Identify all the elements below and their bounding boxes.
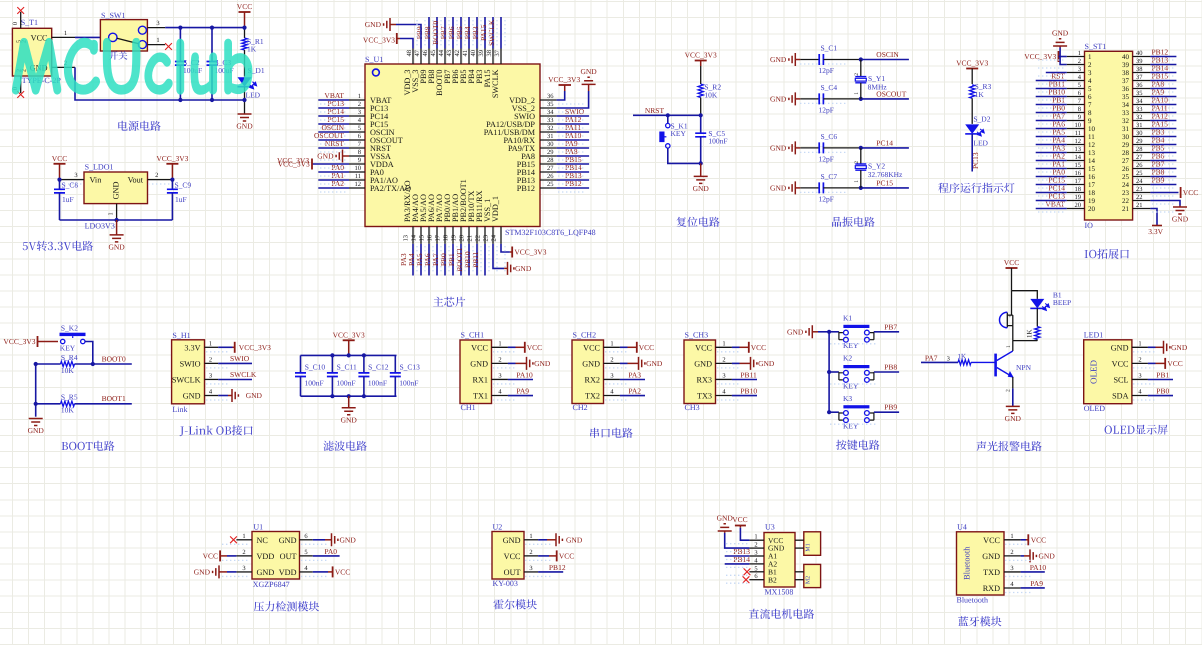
svg-text:VCC: VCC	[52, 154, 67, 163]
wire net PB8	[874, 363, 899, 373]
svg-text:100nF: 100nF	[399, 379, 418, 388]
ground GND for S_C6	[770, 141, 800, 154]
ground GND filter	[341, 396, 358, 424]
wire net PA2 at S_CH2 pin4	[620, 387, 645, 396]
svg-text:26: 26	[1122, 165, 1130, 173]
svg-text:29: 29	[1136, 138, 1143, 145]
svg-text:21: 21	[467, 235, 474, 242]
capacitor S_C8 1uF	[54, 180, 78, 220]
svg-text:NRST: NRST	[325, 139, 345, 148]
svg-text:1: 1	[1078, 50, 1081, 57]
U1 pin 14 PA4/AO	[407, 194, 421, 275]
svg-text:20: 20	[459, 235, 466, 242]
svg-text:CH2: CH2	[573, 403, 588, 412]
svg-text:M2: M2	[806, 576, 812, 584]
svg-text:24: 24	[1136, 178, 1143, 185]
svg-text:1: 1	[529, 533, 532, 540]
svg-text:23: 23	[483, 235, 490, 242]
svg-text:CH3: CH3	[685, 403, 700, 412]
regulator S_LDO1 LDO3V3	[60, 163, 173, 231]
svg-text:S_C8: S_C8	[62, 181, 79, 190]
svg-text:29: 29	[1122, 141, 1130, 149]
connector S_ST1 IO body	[1085, 42, 1133, 230]
wire net OSCOUT	[861, 89, 909, 99]
svg-text:1: 1	[1010, 533, 1013, 540]
svg-text:VCC: VCC	[1183, 188, 1198, 197]
title OLED显示屏	[1105, 425, 1168, 435]
svg-text:32: 32	[547, 125, 554, 132]
U1 pin 33 PA12/USB/DP	[486, 115, 589, 129]
junction BOOT0 K2	[34, 362, 95, 366]
ground GND LDO	[108, 220, 125, 251]
wire net PB14 at U3 pin4	[725, 555, 751, 564]
svg-text:29: 29	[547, 149, 554, 156]
svg-text:12: 12	[1088, 141, 1096, 149]
svg-text:PA3: PA3	[628, 370, 641, 379]
ST1 pin 22 right	[1122, 194, 1150, 205]
svg-text:2: 2	[155, 172, 158, 179]
ST1 pin 25 right	[1122, 168, 1176, 181]
svg-text:S_C1: S_C1	[821, 44, 838, 53]
svg-text:STM32F103C8T6_LQFP48: STM32F103C8T6_LQFP48	[505, 228, 596, 237]
svg-text:S_C7: S_C7	[821, 172, 838, 181]
svg-text:5: 5	[304, 549, 307, 556]
junction bus K2	[827, 370, 831, 374]
power port VCC_3V3 indicator	[956, 59, 988, 85]
svg-text:VCC: VCC	[335, 568, 350, 577]
svg-text:5: 5	[1088, 85, 1092, 93]
title 蓝牙模块	[958, 616, 1001, 626]
svg-text:S_T1: S_T1	[21, 18, 38, 27]
svg-text:PB12: PB12	[565, 179, 582, 188]
svg-text:14: 14	[411, 234, 418, 241]
svg-text:35: 35	[1136, 90, 1143, 97]
ST1 pin 39 right	[1122, 56, 1176, 69]
svg-text:37: 37	[1136, 74, 1143, 81]
svg-text:LED: LED	[246, 91, 261, 100]
U1 pin 39 PB3	[471, 17, 485, 84]
switch S_SW1	[100, 11, 165, 51]
capacitor S_C12 100nF	[358, 355, 388, 396]
svg-text:21: 21	[1122, 205, 1130, 213]
svg-text:15: 15	[419, 235, 426, 242]
svg-text:3.3V: 3.3V	[1148, 227, 1163, 236]
title 程序运行指示灯	[938, 183, 1014, 193]
svg-text:S_ST1: S_ST1	[1085, 42, 1107, 51]
U1 pin 26 PB13	[517, 171, 589, 185]
svg-text:35: 35	[547, 101, 554, 108]
power VCC_3V3 at U1 VDDA pin9	[278, 159, 349, 170]
svg-text:GND: GND	[770, 55, 787, 64]
svg-text:34: 34	[1136, 98, 1143, 105]
svg-text:GND: GND	[787, 327, 804, 336]
svg-text:17: 17	[1075, 178, 1082, 185]
svg-text:U2: U2	[493, 522, 503, 531]
svg-text:GND: GND	[770, 144, 787, 153]
title 电源电路	[118, 121, 160, 131]
capacitor S_C5 100nF	[695, 115, 727, 163]
wire net PA0 at U1 pin5	[313, 547, 340, 556]
wire net PB9	[874, 403, 899, 413]
svg-text:OLED: OLED	[1084, 404, 1106, 413]
svg-text:2: 2	[610, 356, 613, 363]
junction C8 top	[57, 178, 61, 182]
svg-text:100nF: 100nF	[708, 137, 727, 146]
module U2 KY-003 body	[492, 522, 538, 588]
svg-text:S_D2: S_D2	[973, 114, 990, 123]
wire BOOT left bus	[35, 364, 37, 417]
svg-text:VDD: VDD	[279, 568, 297, 577]
svg-text:GND: GND	[770, 95, 787, 104]
svg-text:8: 8	[1088, 109, 1092, 117]
svg-text:3: 3	[498, 372, 501, 379]
svg-text:CH1: CH1	[461, 403, 476, 412]
ground GND at S_CH2 pin2	[620, 357, 663, 370]
svg-text:20: 20	[1088, 205, 1096, 213]
svg-text:23: 23	[1136, 186, 1143, 193]
ground GND at U1 pin6	[313, 533, 357, 546]
svg-text:3: 3	[1138, 372, 1141, 379]
svg-text:PA7: PA7	[925, 353, 938, 362]
svg-text:10: 10	[1075, 122, 1082, 129]
svg-text:S_U1: S_U1	[365, 55, 383, 64]
svg-text:9: 9	[1088, 117, 1092, 125]
wire net PB11 at S_CH3 pin3	[732, 370, 757, 379]
junction at PC15	[859, 186, 863, 190]
svg-text:1: 1	[1006, 345, 1012, 348]
svg-text:36: 36	[1136, 82, 1143, 89]
svg-text:1uF: 1uF	[175, 195, 187, 204]
svg-text:NRST: NRST	[645, 106, 665, 115]
wire net PB7	[874, 322, 899, 332]
ground GND at U1 pin3	[194, 565, 237, 578]
wire net PB13 at U3 pin3	[725, 547, 751, 556]
svg-text:VCC: VCC	[983, 536, 1000, 545]
U1 pin 35 VSS_2	[512, 101, 557, 113]
resistor S_R5 10K / net BOOT1	[36, 393, 132, 415]
svg-text:GND: GND	[717, 514, 734, 523]
ST1 pin 21 right	[1122, 202, 1150, 213]
junction reset node	[666, 113, 703, 117]
svg-text:19: 19	[1075, 194, 1082, 201]
svg-text:GND: GND	[693, 184, 710, 193]
connector S_CH3 CH3 body	[684, 331, 732, 413]
svg-text:2: 2	[358, 101, 361, 108]
pushbutton S_K1 KEY	[659, 115, 700, 163]
U1 pin 27 PB14	[517, 163, 589, 177]
U1 pin 13 PA3/RX/AO	[399, 180, 413, 275]
svg-text:35: 35	[1122, 93, 1130, 101]
svg-text:27: 27	[1122, 157, 1130, 165]
svg-text:SWIO: SWIO	[230, 354, 250, 363]
svg-text:B2: B2	[768, 575, 777, 584]
svg-text:TX3: TX3	[697, 392, 712, 401]
svg-text:BOOT1: BOOT1	[102, 394, 126, 403]
svg-text:9: 9	[1078, 114, 1081, 121]
wire net SWIO at H1	[218, 354, 252, 363]
svg-text:VCC_3V3: VCC_3V3	[156, 154, 188, 163]
svg-text:3: 3	[754, 550, 757, 557]
svg-text:VCC: VCC	[695, 343, 712, 352]
svg-text:12: 12	[355, 181, 362, 188]
svg-text:S_C10: S_C10	[305, 362, 326, 371]
no-connect U3 pin6	[743, 576, 750, 583]
svg-text:10K: 10K	[704, 90, 718, 99]
svg-text:KY-003: KY-003	[493, 579, 518, 588]
svg-text:12pF: 12pF	[819, 105, 834, 114]
svg-text:VCC_3V3: VCC_3V3	[685, 51, 717, 60]
svg-text:21: 21	[1136, 202, 1143, 209]
svg-text:39: 39	[478, 50, 485, 57]
svg-text:33: 33	[1122, 109, 1130, 117]
svg-text:PB12: PB12	[549, 563, 566, 572]
capacitor S_C10 100nF	[295, 355, 325, 396]
svg-text:VDD_1: VDD_1	[491, 196, 500, 222]
wire net OSCIN	[861, 50, 909, 60]
ST1 pin 33 right	[1122, 104, 1176, 117]
svg-text:4: 4	[1088, 77, 1092, 85]
driver U3 MX1508 body	[749, 522, 795, 596]
svg-text:39: 39	[1122, 61, 1130, 69]
svg-text:VCC_3V3: VCC_3V3	[239, 343, 271, 352]
svg-text:VCC: VCC	[732, 515, 747, 524]
wire NRST	[633, 106, 701, 115]
ST1 pin 29 right	[1122, 136, 1176, 149]
svg-text:VCC: VCC	[1167, 359, 1182, 368]
ST1 pin 20 left	[1036, 200, 1096, 213]
svg-text:SWIO: SWIO	[180, 359, 201, 368]
svg-text:PA10: PA10	[516, 370, 533, 379]
svg-text:S_K2: S_K2	[61, 324, 78, 333]
svg-text:3: 3	[358, 109, 361, 116]
junction C3 top	[210, 26, 214, 103]
svg-text:3: 3	[1088, 69, 1092, 77]
svg-text:SWCLK: SWCLK	[172, 375, 201, 384]
title J-Link OB接口	[180, 425, 253, 436]
wire net PB1 at LED1 pin3	[1148, 370, 1173, 379]
wire filter bottom rail	[301, 395, 397, 397]
svg-text:GND: GND	[646, 359, 663, 368]
junction C2 top	[178, 26, 182, 103]
title 滤波电路	[324, 441, 367, 451]
resistor R 1K base / net PA7	[921, 352, 996, 365]
power VCC at LED1 pin2	[1148, 358, 1183, 369]
svg-text:1K: 1K	[1026, 329, 1034, 338]
ST1 pin 2 left	[1067, 58, 1092, 69]
ST1 pin 10 left	[1036, 120, 1096, 133]
svg-text:SWCLK: SWCLK	[487, 19, 496, 46]
svg-text:LDO3V3: LDO3V3	[85, 222, 115, 231]
U1 pin 38 PA15	[479, 17, 493, 87]
resistor S_R4 10K / net BOOT0	[36, 353, 132, 375]
pushbutton K2 KEY	[829, 354, 874, 391]
svg-text:PB1: PB1	[1156, 370, 1169, 379]
svg-text:VCC: VCC	[1004, 258, 1019, 267]
LED S_D2	[965, 114, 991, 147]
U1 pin 1 VBAT	[318, 91, 391, 105]
svg-text:U3: U3	[765, 522, 775, 531]
ST1 pin 14 left	[1036, 152, 1096, 165]
svg-text:2: 2	[854, 73, 860, 76]
U1 pin 43 PB7	[439, 17, 453, 84]
wire net PC15	[861, 178, 909, 188]
svg-text:GND: GND	[534, 359, 551, 368]
svg-text:1: 1	[722, 340, 725, 347]
svg-text:GND: GND	[28, 426, 45, 435]
svg-text:SCL: SCL	[1113, 375, 1128, 384]
svg-text:23: 23	[1122, 189, 1130, 197]
ST1 pin 13 left	[1036, 144, 1096, 157]
svg-text:PB9: PB9	[1152, 176, 1165, 185]
ground GND at U1 VSS_3 pin47	[365, 18, 421, 49]
svg-text:LED: LED	[973, 139, 988, 148]
wire net PA10 at S_CH1 pin3	[508, 370, 533, 379]
power VCC alarm	[1004, 258, 1019, 291]
power VCC at S_CH2 pin1	[620, 342, 654, 353]
svg-text:25: 25	[547, 181, 554, 188]
MCU U1 STM32F103C8T6_LQFP48 body	[365, 55, 596, 237]
ST1 pin 36 right	[1122, 80, 1176, 93]
wire net PC13	[971, 134, 980, 172]
svg-text:PB0: PB0	[1156, 387, 1169, 396]
pushbutton K1 KEY	[829, 314, 874, 351]
svg-text:KEY: KEY	[671, 129, 687, 138]
ST1 pin 3 left	[1067, 66, 1092, 77]
capacitor S_C11 100nF	[327, 355, 357, 396]
svg-text:30: 30	[1122, 133, 1130, 141]
U1 pin 16 PA6/AO	[423, 194, 437, 275]
svg-text:34: 34	[547, 109, 554, 116]
svg-text:S_C9: S_C9	[175, 181, 192, 190]
svg-text:40: 40	[1136, 50, 1143, 57]
ST1 pin 27 right	[1122, 152, 1176, 165]
svg-text:3: 3	[947, 355, 950, 362]
svg-text:41: 41	[462, 50, 469, 57]
svg-text:U1: U1	[253, 522, 263, 531]
svg-text:K2: K2	[843, 354, 852, 363]
svg-text:TXD: TXD	[983, 568, 1000, 577]
svg-text:25: 25	[1136, 170, 1143, 177]
svg-text:GND: GND	[246, 391, 263, 400]
svg-text:S_C12: S_C12	[368, 362, 389, 371]
ground GND at U1 VSS_1 pin23	[493, 244, 532, 275]
svg-text:GND: GND	[365, 20, 382, 29]
junction bus K3	[827, 410, 831, 414]
svg-text:GND: GND	[257, 568, 275, 577]
svg-text:S_R4: S_R4	[61, 353, 78, 362]
ST1 pin 8 left	[1036, 104, 1092, 117]
ST1 pin 9 left	[1036, 112, 1092, 125]
svg-text:28: 28	[1122, 149, 1130, 157]
svg-text:TX2: TX2	[585, 392, 600, 401]
module U1 XGZP6847 body	[236, 522, 312, 589]
svg-text:SWCLK: SWCLK	[230, 370, 257, 379]
svg-text:VDD: VDD	[257, 552, 275, 561]
U1 pin 36 VDD_2	[509, 93, 557, 105]
no-connect mark on SW1 pin1	[165, 43, 172, 50]
svg-text:OSCIN: OSCIN	[876, 50, 899, 59]
connector S_T1 TYPE-C-2P	[12, 12, 75, 93]
svg-text:3: 3	[1078, 66, 1081, 73]
ground GND BOOT	[28, 419, 45, 436]
net label VCC_3V3 floating	[277, 156, 309, 165]
junction R1 top	[242, 26, 246, 30]
svg-text:NC: NC	[257, 536, 269, 545]
power port VCC at LDO input	[52, 154, 67, 180]
svg-text:GND: GND	[582, 359, 600, 368]
svg-text:2: 2	[854, 161, 860, 164]
svg-text:PB9: PB9	[884, 403, 897, 412]
svg-text:16: 16	[1075, 170, 1082, 177]
ground GND at ST1 pin2	[1052, 29, 1069, 65]
svg-text:PB7: PB7	[884, 322, 897, 331]
svg-text:24: 24	[491, 234, 498, 241]
svg-text:TX1: TX1	[473, 392, 488, 401]
svg-text:PA10: PA10	[1030, 563, 1047, 572]
svg-text:PB11: PB11	[740, 370, 757, 379]
svg-text:OLED: OLED	[1089, 360, 1099, 384]
svg-text:12: 12	[1075, 138, 1082, 145]
pushbutton K3 KEY	[829, 394, 874, 431]
svg-text:S_SW1: S_SW1	[101, 11, 125, 20]
svg-text:1: 1	[156, 37, 159, 44]
svg-text:30: 30	[1136, 130, 1143, 137]
svg-text:18: 18	[443, 235, 450, 242]
svg-text:GND: GND	[470, 359, 488, 368]
title 霍尔模块	[494, 599, 537, 609]
ST1 pin 11 left	[1036, 128, 1096, 141]
junction LED to rail	[242, 98, 246, 102]
svg-text:PA2: PA2	[628, 387, 641, 396]
svg-text:VCC_3V3: VCC_3V3	[514, 248, 546, 257]
svg-text:0: 0	[12, 22, 19, 25]
svg-text:BOOT0: BOOT0	[102, 354, 126, 363]
svg-text:S_C4: S_C4	[821, 83, 838, 92]
svg-text:GND: GND	[1172, 215, 1189, 224]
svg-text:43: 43	[446, 50, 453, 57]
svg-text:NPN: NPN	[1016, 363, 1032, 372]
U1 pin 37 SWCLK	[487, 17, 501, 98]
ST1 pin 30 right	[1122, 128, 1176, 141]
svg-text:OUT: OUT	[280, 552, 297, 561]
svg-text:34: 34	[1122, 101, 1130, 109]
svg-text:31: 31	[1136, 122, 1143, 129]
power VCC_3V3 at H1 pin1	[218, 342, 271, 353]
svg-text:S_H1: S_H1	[172, 331, 190, 340]
label 开关	[109, 51, 127, 60]
ST1 pin 28 right	[1122, 144, 1176, 157]
power VCC_3V3 at U1 VDD_1 pin24	[501, 244, 547, 258]
svg-text:13: 13	[1075, 146, 1082, 153]
svg-text:PB11: PB11	[471, 251, 480, 268]
svg-text:1: 1	[854, 180, 860, 183]
svg-text:46: 46	[422, 49, 429, 56]
svg-text:S_LDO1: S_LDO1	[85, 163, 114, 172]
power port VCC top right	[237, 2, 252, 28]
U1 pin 9 VDDA	[349, 157, 394, 169]
svg-text:38: 38	[1122, 69, 1130, 77]
svg-text:GND: GND	[1005, 414, 1022, 423]
svg-text:33: 33	[547, 117, 554, 124]
svg-text:RX3: RX3	[697, 375, 712, 384]
svg-text:GND: GND	[758, 359, 775, 368]
svg-text:VCC_3V3: VCC_3V3	[278, 160, 310, 169]
wire net PB0 at LED1 pin4	[1148, 387, 1173, 396]
svg-text:18: 18	[1075, 186, 1082, 193]
power VCC at S_CH1 pin1	[508, 342, 542, 353]
svg-text:40: 40	[1122, 53, 1130, 61]
svg-text:GND: GND	[982, 552, 1000, 561]
